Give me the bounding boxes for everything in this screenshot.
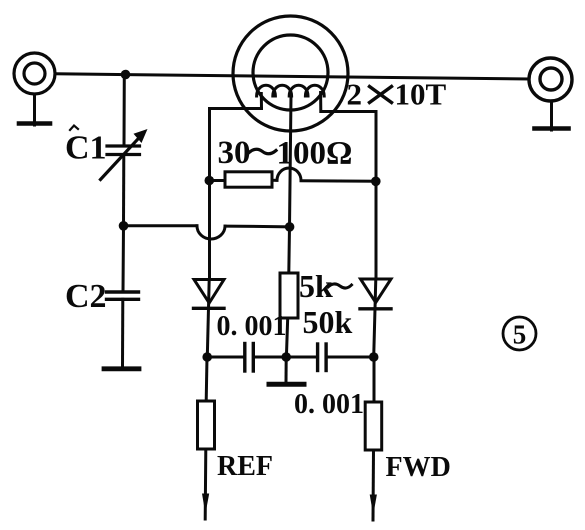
T1 secondary winding 2x10T xyxy=(257,85,325,111)
transformer T1 toroid core xyxy=(233,16,348,131)
ground at J2 xyxy=(535,101,569,130)
svg-text:REF: REF xyxy=(217,451,273,482)
label 30~100 ohm xyxy=(218,135,353,172)
node junction bus right xyxy=(369,352,379,362)
label wave dash of 30~100 xyxy=(249,149,276,154)
svg-text:10T: 10T xyxy=(395,77,447,112)
wire bridge from C1/C2 node to center tap (hops left lead) xyxy=(124,226,290,239)
capacitor C1 (variable) xyxy=(101,75,148,226)
arrow REF output xyxy=(202,494,209,515)
diode D1 (left, REF detector) xyxy=(194,280,225,358)
resistor R1 30~100ohm xyxy=(210,168,377,187)
ground at center bus xyxy=(269,357,304,384)
node junction bus center xyxy=(281,352,291,362)
wire secondary left lead xyxy=(210,109,262,280)
connector J2 (right coax output) xyxy=(529,58,572,101)
resistor R4 (FWD load) xyxy=(365,357,382,520)
node junction bus left xyxy=(202,352,212,362)
ground at J1 xyxy=(19,94,50,125)
arrow FWD output xyxy=(370,495,377,516)
capacitor C4 0.001 (right) xyxy=(318,344,327,371)
wire center tap down xyxy=(289,96,291,273)
svg-text:2: 2 xyxy=(347,77,363,112)
svg-text:0. 001: 0. 001 xyxy=(294,389,364,420)
wire pot bottom to ground node xyxy=(286,318,287,357)
node junction R1 right xyxy=(371,177,381,187)
node junction main wire / C1 branch xyxy=(121,70,131,80)
svg-text:50k: 50k xyxy=(303,304,353,340)
label C1 xyxy=(65,126,107,167)
svg-text:C2: C2 xyxy=(65,278,107,315)
wire detector output bus xyxy=(207,356,374,359)
svg-text:FWD: FWD xyxy=(386,452,451,483)
node junction bridge right / center tap xyxy=(285,222,295,232)
wire main through-line J1 to J2 xyxy=(56,74,530,79)
capacitor C3 0.001 (left) xyxy=(245,344,254,372)
figure number 5 (circled) xyxy=(503,317,536,350)
label 2x10T xyxy=(347,77,447,112)
resistor R3 (REF load) xyxy=(198,357,215,519)
wire secondary right lead xyxy=(321,112,376,280)
svg-text:0. 001: 0. 001 xyxy=(217,311,287,342)
svg-text:30: 30 xyxy=(218,135,251,171)
svg-text:100Ω: 100Ω xyxy=(277,136,353,172)
svg-text:C1: C1 xyxy=(65,130,107,167)
terminal end bar below C2 xyxy=(104,366,139,371)
capacitor C2 xyxy=(107,226,139,367)
svg-text:5: 5 xyxy=(513,320,527,350)
potentiometer R2 5k-50k xyxy=(280,273,298,318)
label wave of 5k~ xyxy=(328,284,352,288)
connector J1 (left coax input) xyxy=(14,53,55,94)
node junction bridge left xyxy=(119,221,129,231)
node junction R1 left xyxy=(205,176,215,186)
diode D2 (right, FWD detector) xyxy=(360,279,391,357)
